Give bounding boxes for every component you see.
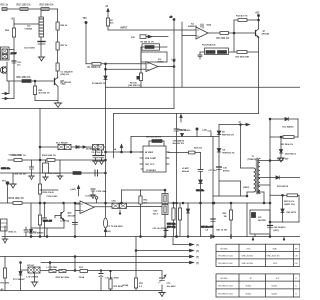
wire to Q1 [229, 32, 256, 34]
wire [39, 225, 41, 237]
capacitor C15 [174, 114, 179, 237]
svg-text:(100 22R 1%): (100 22R 1%) [128, 85, 141, 87]
node [176, 236, 178, 238]
svg-text:R152 3300 1%: R152 3300 1% [12, 155, 26, 157]
IC2 box [141, 52, 167, 62]
node [105, 68, 107, 70]
offpage arrow 2 [136, 249, 194, 252]
transformer T1 primary [254, 168, 256, 192]
ground [278, 158, 285, 162]
svg-text:(+B1): (+B1) [71, 189, 77, 191]
svg-text:R156 10k B: R156 10k B [43, 192, 55, 194]
wire R3 left [141, 46, 145, 48]
node [39, 202, 41, 204]
svg-text:OUT VCC: OUT VCC [145, 164, 155, 166]
wire y=122.5 [219, 123, 250, 125]
svg-text:10n: 10n [17, 65, 21, 67]
svg-text:T1: T1 [252, 156, 255, 158]
wire y=137 [270, 136, 283, 138]
svg-text:S75 AC: S75 AC [27, 264, 35, 267]
svg-text:TZ7.5: TZ7.5 [153, 213, 159, 215]
varistor RV2 [162, 205, 168, 237]
stub x=166 cap [164, 228, 168, 237]
wire y=181 [219, 180, 241, 182]
svg-text:SE115N: SE115N [258, 220, 266, 222]
capacitor C51 electrolytic [38, 42, 45, 45]
wire x=240.5 [240, 125, 242, 169]
wire y=192 primary bottom [247, 191, 254, 193]
resistor R158 [13, 202, 22, 205]
wire x=31 [30, 203, 32, 228]
svg-text:C24 1000/10: C24 1000/10 [274, 226, 287, 229]
wire x=41 [40, 9, 42, 17]
svg-text:R13 (R14) 10k: R13 (R14) 10k [202, 44, 216, 47]
power +B arrow up x=104 [104, 229, 106, 232]
svg-text:RGP10G 1%: RGP10G 1% [222, 134, 234, 136]
node +B1 [13, 20, 15, 24]
node [30, 236, 32, 238]
transformer tap4 [258, 184, 270, 186]
svg-text:D9: D9 [223, 150, 227, 152]
power +B2 rail [258, 15, 260, 30]
capacitor C159 [91, 189, 95, 195]
ground stub x=60 [57, 160, 63, 180]
wire y=160 [8, 159, 106, 161]
node out [173, 66, 175, 68]
op-amp IC2a [146, 62, 158, 72]
svg-text:D30: D30 [154, 211, 159, 213]
svg-text:+B: +B [114, 149, 117, 151]
svg-text:INPUT: INPUT [121, 28, 128, 30]
svg-text:C73: C73 [167, 283, 172, 285]
capacitor C19 [211, 219, 215, 221]
wire x=136 down [135, 237, 137, 279]
wire [35, 95, 58, 101]
power +B4 arrow [180, 115, 182, 123]
transformer tap5 center [258, 191, 265, 204]
svg-text:+B: +B [105, 6, 108, 8]
wire bottom y=290.5 [0, 290, 162, 292]
node [258, 19, 260, 21]
svg-text:D8: D8 [222, 132, 226, 134]
wire x=234 down [233, 33, 235, 52]
transistor Q1 [256, 29, 259, 38]
relay contact S1 [112, 203, 119, 208]
svg-text:(+B): (+B) [172, 59, 176, 61]
capacitor C158 [43, 203, 47, 228]
power +B arrow [107, 9, 109, 19]
wire to contacts [21, 269, 29, 271]
capacitor C162 [73, 223, 78, 225]
svg-text:47k: 47k [110, 22, 114, 25]
svg-text:40n 63V 5%: 40n 63V 5% [173, 142, 185, 145]
node [39, 236, 41, 238]
relay contact S3b [98, 145, 106, 151]
wire R3 right [154, 46, 167, 48]
svg-text:2.2: 2.2 [139, 286, 143, 288]
resistor R51b [283, 136, 294, 139]
svg-text:R161 1k: R161 1k [9, 232, 18, 234]
svg-text:R158 100k 1%: R158 100k 1% [9, 198, 24, 200]
svg-text:R51 220k 1%: R51 220k 1% [281, 144, 294, 146]
node [269, 236, 271, 238]
border y=113.5 [114, 113, 259, 115]
wire [34, 81, 36, 86]
wire x=182 feedback [181, 22, 183, 87]
jack L input [2, 81, 9, 95]
zener D52 [279, 137, 282, 158]
resistor R61 [33, 86, 36, 95]
wire x=57.5 to Q51 [57, 71, 59, 78]
diode D21 [276, 176, 300, 179]
op-amp IC2b [80, 201, 94, 214]
wire y=20 [234, 19, 259, 21]
node [164, 189, 166, 191]
node [74, 236, 76, 238]
svg-text:L4: L4 [206, 229, 209, 232]
node [63, 202, 65, 204]
wire x=75 [74, 203, 76, 237]
capacitor C5 electrolytic [93, 150, 98, 161]
wire x=14 down [13, 24, 15, 81]
svg-text:C18 47n: C18 47n [196, 189, 205, 192]
wire y=30 long [108, 29, 196, 31]
test point TP2 [6, 182, 9, 203]
svg-text:5532: 5532 [207, 25, 212, 27]
transistor Q50 [0, 67, 6, 74]
power +B1 arrow [77, 186, 79, 197]
svg-text:C5 47/50 C6: C5 47/50 C6 [92, 151, 105, 154]
resistor R12 [238, 19, 247, 22]
connector box left [1, 219, 8, 231]
resistor R14 [218, 51, 227, 54]
svg-text:C154 10n 63V: C154 10n 63V [13, 173, 27, 176]
svg-text:C150 10n: C150 10n [1, 168, 11, 170]
node [34, 80, 36, 82]
test point TP3 [95, 197, 98, 204]
offpage arrow 1 [173, 237, 194, 246]
svg-text:TECHNICS 002: TECHNICS 002 [218, 263, 234, 265]
resistor R58 [56, 63, 59, 71]
transformer tap1 [258, 160, 283, 162]
svg-text:IN VREF: IN VREF [145, 152, 154, 154]
wire x=140.5 [140, 190, 142, 237]
svg-text:CHOKE: CHOKE [25, 29, 33, 31]
svg-text:R62 1k 1%: R62 1k 1% [284, 201, 294, 203]
svg-text:Q52: Q52 [68, 213, 73, 215]
resistor R31 [172, 202, 175, 236]
svg-text:D6 MA165: D6 MA165 [34, 232, 45, 235]
wire y=196 [213, 195, 247, 197]
wire Q1 emitter down [258, 37, 260, 113]
wire out [158, 66, 174, 68]
wire y=52 two resistors [200, 51, 259, 53]
rail tick L4 [211, 235, 214, 238]
svg-text:D5 MA165 1%: D5 MA165 1% [86, 148, 100, 151]
node [105, 172, 107, 174]
wire x=105.5 long [105, 80, 107, 237]
svg-text:CN: CN [295, 263, 299, 265]
svg-text:TECHNICS 001: TECHNICS 001 [218, 256, 234, 258]
node x=234 [233, 32, 235, 34]
capacitor C73 spark [159, 275, 167, 283]
svg-text:470/16: 470/16 [223, 169, 230, 172]
diode D62 [281, 194, 284, 222]
svg-text:SVA: SVA [273, 247, 278, 250]
resistor R22b [189, 151, 196, 154]
capacitor C24 electrolytic [268, 226, 273, 228]
resistor R54 [12, 28, 15, 37]
svg-text:C51 100/16: C51 100/16 [24, 48, 36, 50]
svg-text:CN: CN [295, 256, 299, 258]
resistor R56 [56, 22, 59, 30]
svg-text:R60 1800 1%: R60 1800 1% [17, 77, 31, 79]
svg-text:IC5: IC5 [258, 217, 262, 219]
wire x=50 [49, 262, 51, 270]
capacitor C157 [95, 170, 98, 176]
svg-text:NJM5532: NJM5532 [188, 26, 198, 28]
svg-text:TECHNICS 003: TECHNICS 003 [218, 286, 234, 288]
wire x=174 [173, 19, 175, 109]
wire IC5 down [254, 234, 256, 237]
svg-text:10n 400V: 10n 400V [167, 285, 177, 288]
svg-text:D71 1N4007: D71 1N4007 [13, 278, 26, 281]
test point +B stub [196, 128, 198, 137]
capacitor C53 [12, 61, 16, 63]
rail tick R41 [230, 235, 232, 238]
stub x=44.5 [44, 228, 46, 237]
ferrite bead FB1 [137, 76, 141, 80]
wire rail y=236.5 [2, 236, 300, 238]
resistor R156 [38, 184, 41, 194]
resistor R4 [139, 73, 142, 81]
svg-text:(TRAFO): (TRAFO) [248, 158, 257, 161]
wire x=47 drop [46, 228, 48, 237]
wire x=108 [107, 26, 109, 30]
svg-text:+B2: +B2 [255, 13, 260, 15]
wire x=247 pin [246, 192, 248, 197]
svg-text:Q1: Q1 [263, 31, 267, 33]
wire in- y=35.5 [182, 35, 196, 37]
border y=108.5 [0, 108, 174, 110]
svg-text:SHD-3070A: SHD-3070A [242, 255, 254, 258]
ground [29, 176, 35, 180]
wire top rail y=9 [2, 8, 58, 10]
wire y=222 [270, 221, 299, 223]
svg-text:C72 10n 250V: C72 10n 250V [106, 278, 120, 280]
relay contact S75b [34, 267, 40, 273]
wire y=190 stub [40, 189, 58, 191]
wire x=247 [246, 203, 248, 237]
ground [43, 177, 49, 181]
wire y=69.2 [106, 68, 142, 70]
IC5 box [250, 210, 270, 234]
wire loop x=162 [161, 271, 163, 291]
svg-text:L51: L51 [27, 26, 31, 28]
svg-text:+B: +B [238, 122, 241, 124]
node [176, 202, 178, 204]
wire x=219 rectifier chain [218, 125, 220, 197]
wire [294, 136, 298, 138]
stub x=284 [283, 237, 285, 241]
capacitor C160 [24, 227, 28, 237]
svg-text:R41 10 1W: R41 10 1W [217, 229, 227, 232]
svg-text:MODEL: MODEL [221, 248, 229, 250]
fusible R71 [49, 270, 56, 273]
svg-text:(+B): (+B) [107, 231, 111, 233]
resistor R52 [20, 8, 28, 11]
transistor Q51 [55, 77, 59, 103]
tick C14 [210, 132, 212, 137]
stub x=5 [4, 226, 6, 237]
svg-text:JPC: JPC [276, 278, 280, 280]
diode D12 [199, 180, 203, 237]
diode D6 [30, 228, 33, 237]
svg-text:R53 1000 1%: R53 1000 1% [40, 5, 54, 7]
diode D8 [217, 131, 221, 135]
svg-text:R11 560 1%: R11 560 1% [217, 38, 230, 40]
capacitor C72 [99, 270, 103, 291]
transformer T1 core [256, 158, 257, 194]
wire x=213 [212, 137, 214, 238]
svg-text:D62 HZ12: D62 HZ12 [287, 212, 297, 214]
transformer tap3 [258, 177, 276, 179]
wire in+ [75, 203, 80, 205]
resistor R157 [73, 172, 81, 175]
svg-text:C21 100p: C21 100p [60, 221, 70, 223]
svg-text:C23 10n 250V: C23 10n 250V [153, 228, 167, 230]
node [39, 159, 41, 161]
jack plug P1 [140, 35, 168, 39]
transformer T1 secondary [258, 159, 260, 194]
svg-text:D1 MA165 1%: D1 MA165 1% [92, 82, 106, 85]
svg-text:C19 10n 63V: C19 10n 63V [201, 227, 214, 229]
wire y=190 [122, 189, 166, 191]
svg-text:MODEL: MODEL [221, 278, 229, 280]
transistor Q5 blob [252, 213, 256, 218]
svg-text:(T): (T) [196, 251, 199, 253]
svg-text:AC 2P: AC 2P [11, 52, 18, 55]
wire x=121.5 drop [121, 190, 123, 204]
svg-text:L1 FILTER: L1 FILTER [47, 267, 58, 269]
wire IC3 pin to R22 [168, 152, 189, 154]
node [269, 221, 271, 223]
svg-text:60dB+: 60dB+ [246, 286, 253, 288]
wire y=152 to IC3 [106, 151, 144, 153]
wire rail y=203 [0, 202, 270, 204]
jack R input [2, 81, 14, 100]
ground [99, 161, 105, 165]
svg-text:R22: R22 [144, 200, 149, 202]
wire y=136.5 [131, 136, 219, 138]
resistor R30 [229, 202, 232, 236]
svg-text:R52 1200 1%: R52 1200 1% [17, 5, 31, 7]
svg-text:450mA: 450mA [182, 170, 189, 173]
svg-text:C155 100/16: C155 100/16 [48, 173, 61, 175]
svg-text:(VERY 1%): (VERY 1%) [284, 204, 295, 206]
resistor R51 [2, 8, 7, 11]
wire x=200.5 [200, 153, 202, 170]
svg-text:SHD-3055 EX: SHD-3055 EX [267, 256, 281, 258]
wire x=141 [140, 47, 142, 87]
svg-text:R12 4k7 1%: R12 4k7 1% [236, 15, 248, 18]
svg-text:R1 560R 1%: R1 560R 1% [88, 67, 101, 69]
resistor R62 [287, 194, 298, 197]
svg-text:+B: +B [170, 17, 173, 19]
wire y=173 [0, 172, 106, 174]
wire x=40 mid [39, 109, 41, 204]
capacitor C154 [30, 160, 34, 176]
connector P51 [1, 47, 10, 60]
node [46, 236, 48, 238]
wire x=41 lower [40, 37, 42, 56]
svg-text:RGP10G 1%: RGP10G 1% [223, 152, 235, 154]
node [280, 136, 282, 138]
svg-text:C158 10/63: C158 10/63 [47, 196, 59, 198]
wire P51 out [9, 49, 14, 51]
svg-text:VC36DAO: VC36DAO [146, 169, 156, 172]
node [140, 236, 142, 238]
svg-text:D52 HZ6C1: D52 HZ6C1 [285, 154, 297, 156]
resistor R2 [106, 18, 109, 26]
svg-text:L5 4R7: L5 4R7 [182, 167, 190, 170]
svg-text:L70 CHOKE: L70 CHOKE [27, 277, 39, 279]
wire y=63.8 [86, 63, 141, 65]
wire y=24 [14, 23, 41, 25]
svg-text:SUP: SUP [273, 263, 278, 265]
wire x=240.5 lower [240, 181, 242, 196]
svg-text:P30: P30 [131, 37, 136, 39]
diode D7 on wire [181, 134, 184, 137]
connector CN52 [65, 144, 72, 149]
node [105, 159, 107, 161]
select box R13 R14 [205, 48, 229, 55]
select box R3 [142, 44, 160, 50]
svg-text:SHD-3070A: SHD-3070A [242, 262, 254, 265]
offpage arrow 3 wire y=257.5 [0, 255, 194, 258]
svg-text:C17 10n: C17 10n [209, 170, 218, 172]
diode D1 [104, 69, 107, 79]
svg-text:60dB+: 60dB+ [246, 293, 253, 295]
resistor R73 [80, 270, 88, 273]
wire in- [141, 68, 146, 70]
node [74, 202, 76, 204]
svg-text:S1-1 RELAY: S1-1 RELAY [56, 142, 68, 145]
ground [93, 161, 99, 165]
resistor R13 [206, 51, 215, 54]
svg-text:R15 5600 22R: R15 5600 22R [236, 57, 250, 59]
resistor R75 [109, 270, 112, 290]
svg-text:TECHNICS 004: TECHNICS 004 [218, 293, 234, 295]
svg-text:R153 5600 1%: R153 5600 1% [42, 155, 56, 157]
wire x=234 up [233, 20, 235, 33]
node [105, 63, 107, 65]
resistor R20 feedback [149, 140, 164, 146]
svg-text:(T): (T) [196, 245, 199, 247]
ground [54, 103, 62, 108]
resistor R22 [139, 196, 142, 204]
wire y=168 primary top [241, 167, 254, 169]
svg-text:TP1: TP1 [83, 18, 88, 20]
resistor R11 [220, 32, 229, 35]
svg-text:F1 T3.15A 250V: F1 T3.15A 250V [108, 225, 124, 228]
ground C150 [10, 173, 17, 188]
node [164, 236, 166, 238]
svg-text:(T): (T) [196, 257, 199, 259]
svg-text:R3 560 1k 1%: R3 560 1k 1% [141, 42, 154, 44]
varistor RV1 [162, 190, 168, 204]
svg-text:(+B): (+B) [203, 130, 207, 132]
